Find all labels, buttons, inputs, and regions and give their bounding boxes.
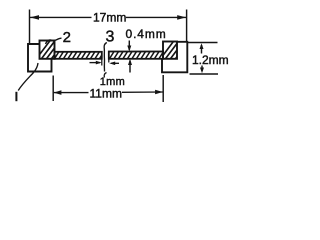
- dimension text 1mm with leader hook: [104, 73, 106, 78]
- dimension 17mm: dimension line and arrows: [30, 16, 92, 18]
- left support block 1 (plain outline): [28, 44, 52, 72]
- dimension 11mm: extension lines: [52, 76, 54, 102]
- svg-text:0.4mm: 0.4mm: [126, 27, 167, 41]
- svg-text:1.2mm: 1.2mm: [192, 53, 229, 67]
- thin blank bar, left piece (hatched): [53, 50, 105, 61]
- svg-text:1mm: 1mm: [100, 76, 125, 88]
- dimension 1mm (slit width): arrows: [90, 62, 101, 64]
- dimension 0.4mm: arrows to bar thickness: [128, 41, 130, 51]
- dimension 1.2mm: arrows: [201, 45, 203, 54]
- dimension 1.2mm: ticks: [187, 42, 217, 44]
- leader for label 2 (squiggle): [46, 38, 62, 44]
- leader for label 1 (curve into left block): [18, 63, 38, 91]
- dimension 17mm: extension lines: [29, 10, 31, 44]
- svg-text:2: 2: [63, 29, 71, 46]
- thin blank bar, right piece (hatched): [108, 50, 165, 61]
- left thick end of blank (hatched block, ref 2): [34, 38, 67, 62]
- svg-text:11mm: 11mm: [90, 87, 122, 101]
- right thick end of blank (hatched block): [158, 38, 191, 62]
- right support block (plain outline): [162, 42, 187, 73]
- slit edge short extensions: [101, 59, 103, 66]
- dimension 11mm: dimension line and arrows: [54, 92, 89, 94]
- leader for label 3 (wavy line through slit): [104, 43, 107, 72]
- label 1: [15, 92, 17, 101]
- svg-text:17mm: 17mm: [93, 11, 126, 25]
